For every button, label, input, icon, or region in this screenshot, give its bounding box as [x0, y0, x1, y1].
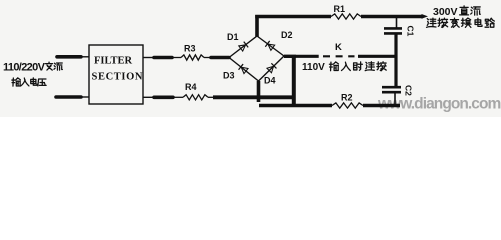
diode D1: [239, 45, 246, 51]
svg-text:110/220V: 110/220V: [3, 62, 46, 74]
wire R3 to bridge left vertex: [204, 57, 211, 59]
resistor R1: [331, 14, 361, 19]
svg-text:R2: R2: [341, 93, 353, 103]
wire from filter to R3: [143, 57, 154, 59]
resistor R3: [181, 55, 204, 60]
capacitor C1: [396, 17, 398, 28]
svg-text:D3: D3: [223, 71, 235, 81]
wire: top input terminal stub: [57, 55, 81, 59]
svg-text:D2: D2: [281, 30, 293, 40]
svg-text:D1: D1: [227, 32, 239, 42]
bridge diamond edges: [229, 36, 257, 58]
resistor R2: [332, 103, 363, 108]
wire bridge bottom vertex down: [257, 81, 261, 102]
diode D3: [241, 67, 248, 73]
resistor R4: [183, 95, 208, 100]
wire bridge right vertex stub and drop to bottom rail: [284, 55, 296, 58]
svg-text:R1: R1: [334, 4, 346, 14]
wire: bottom input terminal stub: [56, 95, 81, 99]
wire from filter to R4: [143, 96, 154, 98]
diode D4: [267, 66, 274, 73]
filter section box: [89, 45, 143, 104]
svg-text:R3: R3: [184, 44, 196, 54]
svg-text:R4: R4: [185, 82, 197, 92]
wire midpoint C1-C2 (K connects here): [394, 34, 397, 86]
capacitor C2: [382, 86, 401, 89]
svg-text:D4: D4: [264, 76, 276, 86]
svg-text:300V: 300V: [433, 6, 458, 18]
svg-text:C2: C2: [404, 85, 414, 96]
top rail right segment with arrow to 300V: [361, 15, 423, 18]
wire bridge top vertex up to rail: [255, 15, 259, 37]
bottom rail left segment: [259, 104, 332, 108]
svg-text:110V: 110V: [302, 62, 325, 73]
svg-text:K: K: [335, 42, 342, 53]
svg-text:FILTER: FILTER: [94, 56, 133, 67]
bottom rail right segment: [363, 104, 400, 108]
top rail left segment: [255, 15, 331, 18]
diode D2: [268, 44, 275, 50]
svg-text:C1: C1: [406, 26, 416, 37]
switch K dashed line: [296, 55, 319, 58]
svg-text:SECTION: SECTION: [92, 72, 143, 83]
long wire R4 to right, corner down to bottom rail: [208, 96, 213, 98]
